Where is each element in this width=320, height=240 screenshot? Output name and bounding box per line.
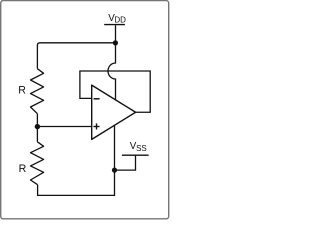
wire top rail [37, 43, 115, 69]
label VSS [130, 141, 147, 153]
node junction dot top [113, 40, 118, 45]
node junction dot mid [35, 124, 40, 129]
border frame [1, 1, 169, 219]
op-amp plus sign [93, 123, 99, 129]
label VDD [108, 13, 126, 25]
svg-text:R: R [18, 84, 26, 96]
wire bottom rail to op-amp V- pin [38, 126, 115, 196]
wire VSS stub [115, 155, 136, 170]
wire VDD pin with crossover hop [108, 25, 115, 100]
op-amp minus sign [94, 98, 100, 100]
resistor R2 [31, 142, 44, 185]
op-amp U1 [92, 85, 136, 139]
supply bar VDD [104, 24, 125, 26]
wire R1 to node [36, 114, 38, 142]
svg-text:SS: SS [136, 144, 147, 153]
supply bar VSS [122, 154, 149, 156]
wire non-inverting input [37, 126, 91, 128]
svg-text:R: R [19, 163, 27, 175]
svg-text:DD: DD [114, 16, 126, 25]
wire feedback loop [80, 71, 150, 112]
node junction dot bottom [112, 168, 117, 173]
resistor R1 [31, 69, 44, 114]
